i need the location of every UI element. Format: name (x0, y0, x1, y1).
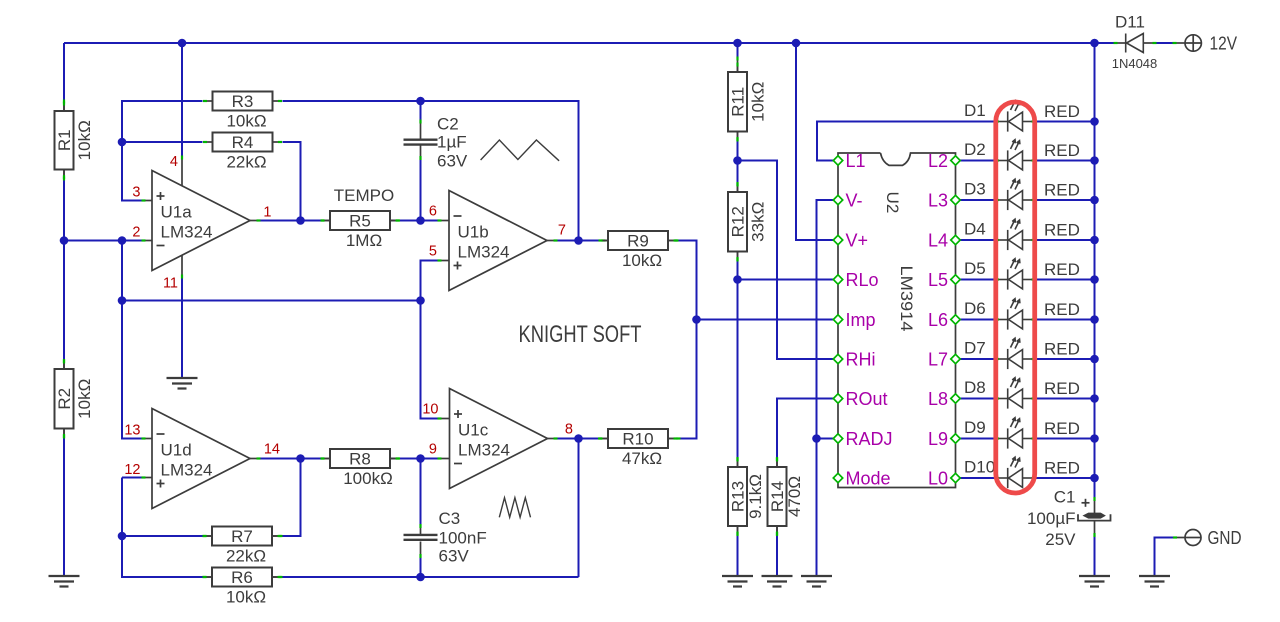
svg-text:KNIGHT SOFT: KNIGHT SOFT (519, 321, 642, 348)
wire C3 bottom (420, 558, 422, 577)
svg-text:D6: D6 (964, 299, 986, 318)
svg-text:C3: C3 (439, 509, 461, 528)
junction node J10 at 420.5,300.5 (416, 296, 425, 305)
svg-text:7: 7 (558, 223, 566, 239)
svg-text:D4: D4 (964, 220, 986, 239)
junction node J12 at 420.5,220.5 (416, 216, 425, 225)
svg-text:R8: R8 (349, 450, 371, 469)
svg-text:D2: D2 (964, 140, 986, 159)
wire R8 right to pin9 node (390, 458, 421, 460)
svg-text:Imp: Imp (846, 310, 876, 330)
resistor R14 (768, 458, 805, 536)
svg-text:LM324: LM324 (161, 461, 213, 480)
svg-text:R10: R10 (622, 430, 653, 449)
svg-text:LM3914: LM3914 (897, 266, 916, 332)
wire R4 right to pin1 (283, 142, 301, 221)
LED D7 (999, 338, 1032, 369)
svg-text:L6: L6 (928, 310, 948, 330)
resistor R4 (203, 133, 282, 172)
junction node bus D6 (1090, 315, 1099, 324)
svg-text:TEMPO: TEMPO (334, 186, 394, 205)
junction node J13 at 578.5,240.5 (574, 236, 583, 245)
junction node J8 at 122,240.5 (118, 236, 127, 245)
svg-text:63V: 63V (437, 152, 468, 171)
LED D6 (999, 299, 1032, 330)
svg-text:L8: L8 (928, 389, 948, 409)
wire R12 bottom (737, 262, 739, 280)
svg-text:R13: R13 (729, 481, 748, 512)
svg-text:D10: D10 (964, 458, 995, 477)
junction node bus D3 (1090, 196, 1099, 205)
wire L6 to D6 (960, 319, 995, 321)
pin L2 (951, 156, 960, 165)
svg-text:U1a: U1a (161, 203, 193, 222)
LED D8 (999, 378, 1032, 409)
svg-text:V-: V- (846, 190, 863, 210)
wire to LM3914 Imp pin (697, 319, 834, 321)
resistor R6 (203, 568, 282, 607)
resistor R10 (599, 429, 678, 468)
wire R1 top (63, 43, 65, 100)
junction node J2 at 737.5,43 (733, 39, 742, 48)
svg-text:L9: L9 (928, 429, 948, 449)
junction node J19 at 420.5,458.5 (416, 454, 425, 463)
wire R13 bottom (737, 536, 739, 576)
svg-text:11: 11 (163, 276, 178, 292)
label U2 (883, 192, 902, 214)
wire U1d pin14 to R8 (301, 458, 321, 460)
wire D5 anode to bus (1036, 279, 1095, 281)
svg-text:R7: R7 (231, 527, 253, 546)
resistor R9 (599, 231, 678, 270)
wire D11 anode tick (1114, 42, 1118, 44)
svg-text:LM324: LM324 (161, 223, 213, 242)
pin Imp (833, 315, 842, 324)
wire mid bias rail (122, 300, 421, 302)
junction node bus D9 (1090, 434, 1099, 443)
svg-text:D11: D11 (1115, 13, 1145, 32)
wire U1a pin11 to ground (181, 279, 183, 379)
wire R3 right feedback to pin7 (283, 101, 579, 241)
svg-text:10kΩ: 10kΩ (226, 112, 266, 131)
svg-text:R2: R2 (55, 388, 74, 410)
svg-text:R5: R5 (349, 212, 371, 231)
svg-text:RED: RED (1044, 419, 1080, 438)
pin L4 (951, 235, 960, 244)
wire D4 anode to bus (1036, 239, 1095, 241)
GND terminal (1185, 530, 1201, 546)
red highlight oval (996, 102, 1035, 493)
junction node J7 at 64,240.5 (60, 236, 69, 245)
svg-text:U1d: U1d (161, 441, 192, 460)
op-amp U1b (449, 191, 547, 291)
svg-text:10kΩ: 10kΩ (622, 251, 662, 270)
svg-text:22kΩ: 22kΩ (226, 153, 266, 172)
IC U2 LM3914 body (838, 153, 956, 488)
svg-text:D7: D7 (964, 339, 986, 358)
junction node J18 at 300.5,458.5 (296, 454, 305, 463)
wire R11 top (737, 43, 739, 57)
wire C3 top (420, 459, 422, 525)
wire L5 to D5 (960, 279, 995, 281)
svg-text:10kΩ: 10kΩ (75, 379, 94, 419)
svg-text:D5: D5 (964, 259, 986, 278)
LED D5 (999, 259, 1032, 290)
wire C1 bottom to ground (1094, 537, 1096, 576)
svg-text:100kΩ: 100kΩ (343, 469, 393, 488)
resistor R12 (728, 183, 768, 262)
svg-text:R12: R12 (729, 206, 748, 237)
svg-text:R6: R6 (231, 568, 253, 587)
svg-text:RED: RED (1044, 379, 1080, 398)
svg-text:RED: RED (1044, 459, 1080, 478)
wire V+ to top rail (796, 43, 834, 240)
svg-text:6: 6 (429, 204, 437, 220)
svg-text:LM324: LM324 (458, 243, 510, 262)
wire L8 to D8 (960, 398, 995, 400)
wire D9 anode to bus (1036, 438, 1095, 440)
svg-text:L0: L0 (928, 468, 948, 488)
wire R3 left / U1a pin3 (122, 101, 203, 201)
LED D2 (999, 140, 1032, 171)
svg-text:13: 13 (124, 423, 140, 439)
junction node J14 at 696.5,319.5 (692, 315, 701, 324)
svg-text:V+: V+ (846, 230, 869, 250)
junction node bus D7 (1090, 355, 1099, 364)
wire D6 anode to bus (1036, 319, 1095, 321)
wire ROut to R14 (777, 399, 834, 458)
pin RHi (833, 354, 842, 363)
junction node J1 at 182,43 (178, 39, 187, 48)
triangle wave symbol (481, 140, 559, 161)
svg-text:ROut: ROut (846, 389, 888, 409)
svg-text:D9: D9 (964, 418, 986, 437)
svg-text:1MΩ: 1MΩ (346, 231, 382, 250)
junction node J5 at 420.5,101 (416, 97, 425, 106)
svg-text:RED: RED (1044, 181, 1080, 200)
label LM3914 (897, 266, 916, 332)
resistor R1 (55, 102, 95, 180)
pin RADJ (833, 434, 842, 443)
wire C2 top (420, 101, 422, 120)
wire R11 bottom (737, 142, 739, 161)
junction node J15 at 737.5,160.5 (733, 156, 742, 165)
svg-text:9.1kΩ: 9.1kΩ (746, 474, 765, 519)
wire pin8 node to R10 (579, 438, 599, 440)
wire GND terminal to ground (1155, 538, 1174, 577)
wire L3 to D3 (960, 199, 995, 201)
wire R14 bottom (776, 536, 778, 576)
diode D11 (1126, 34, 1144, 53)
op-amp U1c (450, 389, 548, 489)
resistor R3 (203, 92, 282, 131)
sawtooth wave symbol (499, 498, 530, 518)
junction node J22 at 420.5,577 (416, 573, 425, 582)
junction node J6 at 122,142 (118, 138, 127, 147)
wire to 12V terminal (1157, 42, 1173, 44)
wire R1 bottom to node (63, 181, 65, 241)
svg-text:2: 2 (132, 225, 140, 241)
svg-text:8: 8 (565, 422, 573, 438)
capacitor C1 (1078, 499, 1111, 521)
svg-text:RED: RED (1044, 300, 1080, 319)
junction node J4 at 1094.5,43 (1090, 39, 1099, 48)
wire D1 anode to bus (1036, 121, 1095, 123)
svg-text:10: 10 (422, 402, 438, 418)
svg-text:RLo: RLo (846, 270, 879, 290)
svg-text:C1: C1 (1054, 488, 1076, 507)
svg-text:R1: R1 (55, 129, 74, 151)
wire D8 anode to bus (1036, 398, 1095, 400)
wire R2 bottom to ground (63, 439, 65, 577)
junction node bus D8 (1090, 394, 1099, 403)
wire D11 cathode side (1144, 42, 1153, 44)
ground C1 (1079, 576, 1110, 587)
capacitor C3 (404, 535, 438, 540)
12V supply terminal (1185, 35, 1201, 51)
wire D3 anode to bus (1036, 199, 1095, 201)
pin L3 (951, 195, 960, 204)
svg-text:10kΩ: 10kΩ (749, 82, 768, 122)
LED D3 (999, 179, 1032, 210)
svg-text:5: 5 (429, 244, 437, 260)
wire U1c pin10 from mid rail (421, 301, 438, 419)
wire top +12V rail (64, 42, 1114, 44)
resistor R7 (203, 527, 282, 566)
wire U1a pin1 to R5 (261, 220, 321, 222)
wire U1a pin2 (122, 240, 142, 242)
junction node bus D10 (1090, 474, 1099, 483)
svg-text:R11: R11 (729, 87, 748, 117)
svg-text:1: 1 (263, 205, 271, 221)
svg-text:U1b: U1b (458, 223, 489, 242)
pin ROut (833, 394, 842, 403)
svg-text:25V: 25V (1045, 530, 1076, 549)
wire LED bus vertical (1094, 43, 1096, 497)
svg-text:4: 4 (170, 154, 178, 170)
wire R5 right to node pin6 (390, 220, 421, 222)
wire U1d pin12 (122, 477, 142, 479)
pin RLo (833, 275, 842, 284)
svg-text:U2: U2 (883, 192, 902, 214)
svg-text:22kΩ: 22kΩ (226, 547, 266, 566)
svg-text:63V: 63V (439, 547, 470, 566)
wire R4 left (122, 141, 203, 143)
svg-text:RED: RED (1044, 141, 1080, 160)
wire L7 to D7 (960, 358, 995, 360)
svg-text:C2: C2 (437, 115, 459, 134)
wire U1b pin6 (421, 220, 438, 222)
junction node bus D2 (1090, 156, 1099, 165)
wire C2 bottom to pin6 node (420, 160, 422, 221)
svg-text:RED: RED (1044, 340, 1080, 359)
resistor R2 (55, 360, 95, 439)
svg-text:12: 12 (124, 462, 140, 478)
svg-text:47kΩ: 47kΩ (622, 449, 662, 468)
wire R11/R12 node to RHi (738, 161, 834, 360)
junction node bus D1 (1090, 117, 1099, 126)
svg-text:470Ω: 470Ω (785, 476, 804, 517)
wire U1c pin9 (421, 458, 438, 460)
ground R13 (722, 576, 753, 587)
resistor R5 (321, 211, 400, 250)
pin L5 (951, 275, 960, 284)
ground GND terminal (1139, 576, 1170, 587)
svg-text:L2: L2 (928, 151, 948, 171)
junction node J16 at 737.5,279.5 (733, 275, 742, 284)
svg-text:10kΩ: 10kΩ (75, 120, 94, 160)
resistor R11 (728, 63, 768, 142)
svg-text:RED: RED (1044, 102, 1080, 121)
svg-text:RADJ: RADJ (846, 429, 893, 449)
wire U1b pin7 to R9 (558, 240, 602, 242)
wire pin14 node (261, 458, 301, 460)
svg-text:R9: R9 (627, 232, 649, 251)
svg-text:L4: L4 (928, 230, 948, 250)
svg-text:R4: R4 (232, 133, 254, 152)
wire U1b pin5 to mid rail (421, 261, 438, 301)
junction node bus D4 (1090, 236, 1099, 245)
LED D9 (999, 418, 1032, 449)
capacitor C2 (404, 140, 438, 145)
wire pin12 down to R6 left (122, 478, 203, 578)
svg-text:1µF: 1µF (437, 133, 467, 152)
svg-text:33kΩ: 33kΩ (749, 202, 768, 242)
pin V- (833, 195, 842, 204)
wire bottom rail R6 right to feedback (283, 576, 579, 578)
svg-text:L7: L7 (928, 349, 948, 369)
svg-text:L3: L3 (928, 190, 948, 210)
ground V- (801, 576, 832, 587)
pin L7 (951, 354, 960, 363)
wire R2 top (63, 241, 65, 360)
wire RLo (738, 279, 834, 281)
svg-text:R3: R3 (232, 92, 254, 111)
wire RADJ (817, 438, 834, 440)
svg-text:100µF: 100µF (1027, 509, 1076, 528)
wire V- down to ground (817, 200, 834, 576)
svg-text:L1: L1 (846, 151, 866, 171)
wire L4 to D4 (960, 239, 995, 241)
wire L1 to D1 (817, 122, 995, 161)
wire U1a pin4 supply (181, 43, 183, 156)
op-amp U1d (152, 409, 250, 509)
junction node J21 at 122,536 (118, 532, 127, 541)
LED D4 (999, 219, 1032, 250)
junction node J11 at 300.5,220.5 (296, 216, 305, 225)
wire R12 top (737, 161, 739, 183)
svg-text:D1: D1 (964, 101, 986, 120)
wire node down to U1d pin13 (122, 241, 142, 439)
svg-text:RED: RED (1044, 260, 1080, 279)
wire U1c pin8 out (558, 438, 579, 440)
LED D1 (999, 101, 1032, 132)
svg-text:10kΩ: 10kΩ (226, 588, 266, 607)
svg-text:LM324: LM324 (458, 441, 510, 460)
resistor R8 (321, 449, 400, 488)
pin L8 (951, 394, 960, 403)
ground U1a pin11 (167, 378, 198, 389)
op-amp U1a (152, 171, 250, 271)
svg-text:D8: D8 (964, 378, 986, 397)
svg-text:GND: GND (1208, 528, 1242, 548)
LED D10 (999, 457, 1032, 488)
svg-text:3: 3 (132, 185, 140, 201)
junction node J9 at 122,300.5 (118, 296, 127, 305)
junction node J17 at 816.5,438.5 (812, 434, 821, 443)
svg-text:RHi: RHi (846, 349, 876, 369)
ground R14 (762, 576, 793, 587)
wire D10 anode to bus (1036, 477, 1095, 479)
svg-text:L5: L5 (928, 270, 948, 290)
wire L2 to D2 (960, 160, 995, 162)
svg-text:Mode: Mode (846, 468, 891, 488)
wire R13 top (737, 280, 739, 458)
junction node J3 at 796,43 (792, 39, 801, 48)
wire L0 to D10 (960, 477, 995, 479)
svg-text:1N4048: 1N4048 (1112, 56, 1158, 71)
svg-text:100nF: 100nF (439, 529, 487, 548)
junction node J20 at 578.5,438.5 (574, 434, 583, 443)
wire D2 anode to bus (1036, 160, 1095, 162)
svg-text:RED: RED (1044, 221, 1080, 240)
wire R9 right down to R10 right (679, 241, 697, 439)
svg-text:D3: D3 (964, 180, 986, 199)
pin L1 (833, 156, 842, 165)
pin L9 (951, 434, 960, 443)
junction node bus D5 (1090, 275, 1099, 284)
svg-text:U1c: U1c (458, 421, 489, 440)
wire pin8 feedback down (578, 439, 580, 578)
wire D7 anode to bus (1036, 358, 1095, 360)
pin L0 (951, 473, 960, 482)
svg-text:12V: 12V (1210, 33, 1238, 53)
svg-text:9: 9 (429, 442, 437, 458)
wire R7 right up to pin14 (283, 459, 301, 537)
wire node A horizontal (64, 240, 122, 242)
resistor R13 (728, 458, 765, 536)
pin L6 (951, 315, 960, 324)
ground R2 (49, 576, 80, 587)
wire L9 to D9 (960, 438, 995, 440)
pin V+ (833, 235, 842, 244)
pin Mode (833, 473, 842, 482)
wire R7 left (122, 535, 203, 537)
svg-text:14: 14 (264, 442, 280, 458)
